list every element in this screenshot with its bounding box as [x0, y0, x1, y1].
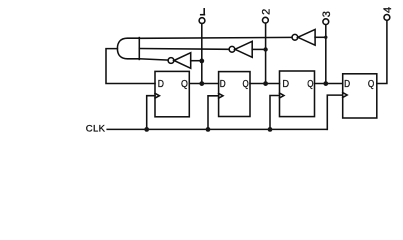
wire Q2 riser: [265, 23, 267, 83]
inverter 2 triangle: [235, 41, 252, 57]
flip-flop FF2 box: [219, 72, 250, 117]
terminal circle Q1: [199, 18, 205, 24]
wire FF4 clock riser: [327, 95, 342, 129]
net label Q1 digit stem: [201, 14, 205, 16]
terminal circle Q3: [323, 19, 329, 25]
junction dot inverter1 input on Q1 riser: [199, 59, 204, 64]
svg-text:D: D: [220, 79, 226, 90]
wire inverter 3 input stub: [315, 36, 326, 38]
flip-flop FF1 box: [155, 71, 189, 116]
wire FF2 Q to FF3 D: [250, 83, 280, 85]
AND gate body: [117, 38, 139, 59]
flip-flop FF4 box: [343, 74, 377, 118]
wire feedback line B (inverter2 output to AND middle input): [139, 48, 229, 51]
flip-flop FF1 clock triangle: [155, 93, 159, 98]
junction dot inverter3 input on Q3 riser: [324, 36, 327, 39]
inverter 3 triangle: [298, 29, 315, 45]
svg-text:D: D: [344, 79, 350, 90]
terminal circle Q4: [384, 15, 390, 21]
svg-text:Q: Q: [181, 79, 188, 90]
wire inverter 1 input stub: [191, 60, 202, 62]
svg-text:CLK: CLK: [86, 124, 106, 135]
svg-text:Q: Q: [243, 79, 249, 90]
wire FF1 clock riser: [147, 96, 155, 130]
wire Q1 riser: [201, 24, 203, 84]
wire feedback line A (inverter3 output to AND top input): [139, 36, 292, 39]
inverter 2 bubble: [229, 46, 235, 52]
junction dot CLK to FF1: [144, 127, 149, 132]
AND gate flat input side: [138, 38, 140, 60]
wire AND output to FF1 D input: [106, 49, 155, 84]
junction dot inverter2 input on Q2 riser: [263, 47, 267, 51]
svg-text:Q: Q: [368, 79, 375, 90]
wire CLK bus: [107, 128, 327, 130]
junction dot FF3 Q node: [323, 81, 328, 86]
wire FF3 clock riser: [270, 96, 280, 130]
flip-flop FF4 clock triangle: [343, 93, 347, 98]
wire feedback line C (inverter1 output to AND bottom input): [139, 59, 168, 60]
svg-text:D: D: [158, 79, 164, 90]
flip-flop FF3 clock triangle: [280, 93, 284, 98]
net label Q1 digit serif: [203, 9, 205, 15]
inverter 1 triangle: [174, 53, 191, 69]
junction dot FF1 Q node: [199, 81, 204, 86]
inverter 1 bubble: [168, 58, 174, 64]
svg-text:Q: Q: [307, 79, 313, 90]
svg-text:3: 3: [321, 11, 333, 17]
flip-flop FF3 box: [280, 71, 315, 117]
wire FF1 Q to FF2 D: [189, 83, 218, 85]
junction dot CLK to FF2: [206, 127, 211, 132]
junction dot CLK to FF3: [268, 127, 273, 132]
svg-text:D: D: [282, 79, 289, 90]
junction dot FF2 Q node: [263, 81, 268, 86]
terminal circle Q2: [263, 17, 269, 23]
wire FF4 Q to Q4 terminal: [377, 20, 387, 83]
flip-flop FF2 clock triangle: [219, 93, 223, 98]
svg-text:4: 4: [382, 7, 394, 13]
wire FF3 Q to FF4 D: [315, 83, 343, 85]
inverter 3 bubble: [292, 34, 298, 40]
svg-text:2: 2: [260, 9, 272, 15]
wire inverter 2 input stub: [252, 48, 265, 50]
wire Q3 riser: [325, 25, 327, 84]
wire FF2 clock riser: [208, 96, 219, 130]
